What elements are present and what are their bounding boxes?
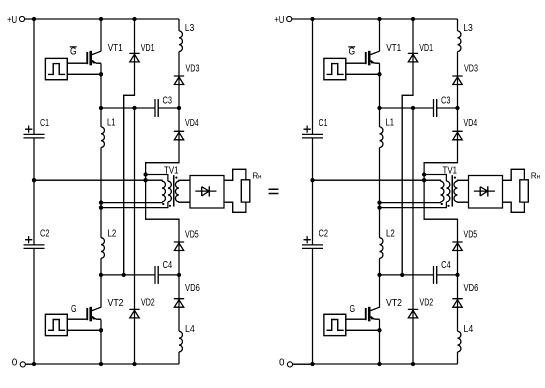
- svg-text:+U: +U: [7, 15, 17, 26]
- svg-text:0: 0: [12, 357, 18, 368]
- svg-text:0: 0: [279, 357, 285, 368]
- svg-text:+U: +U: [274, 15, 284, 26]
